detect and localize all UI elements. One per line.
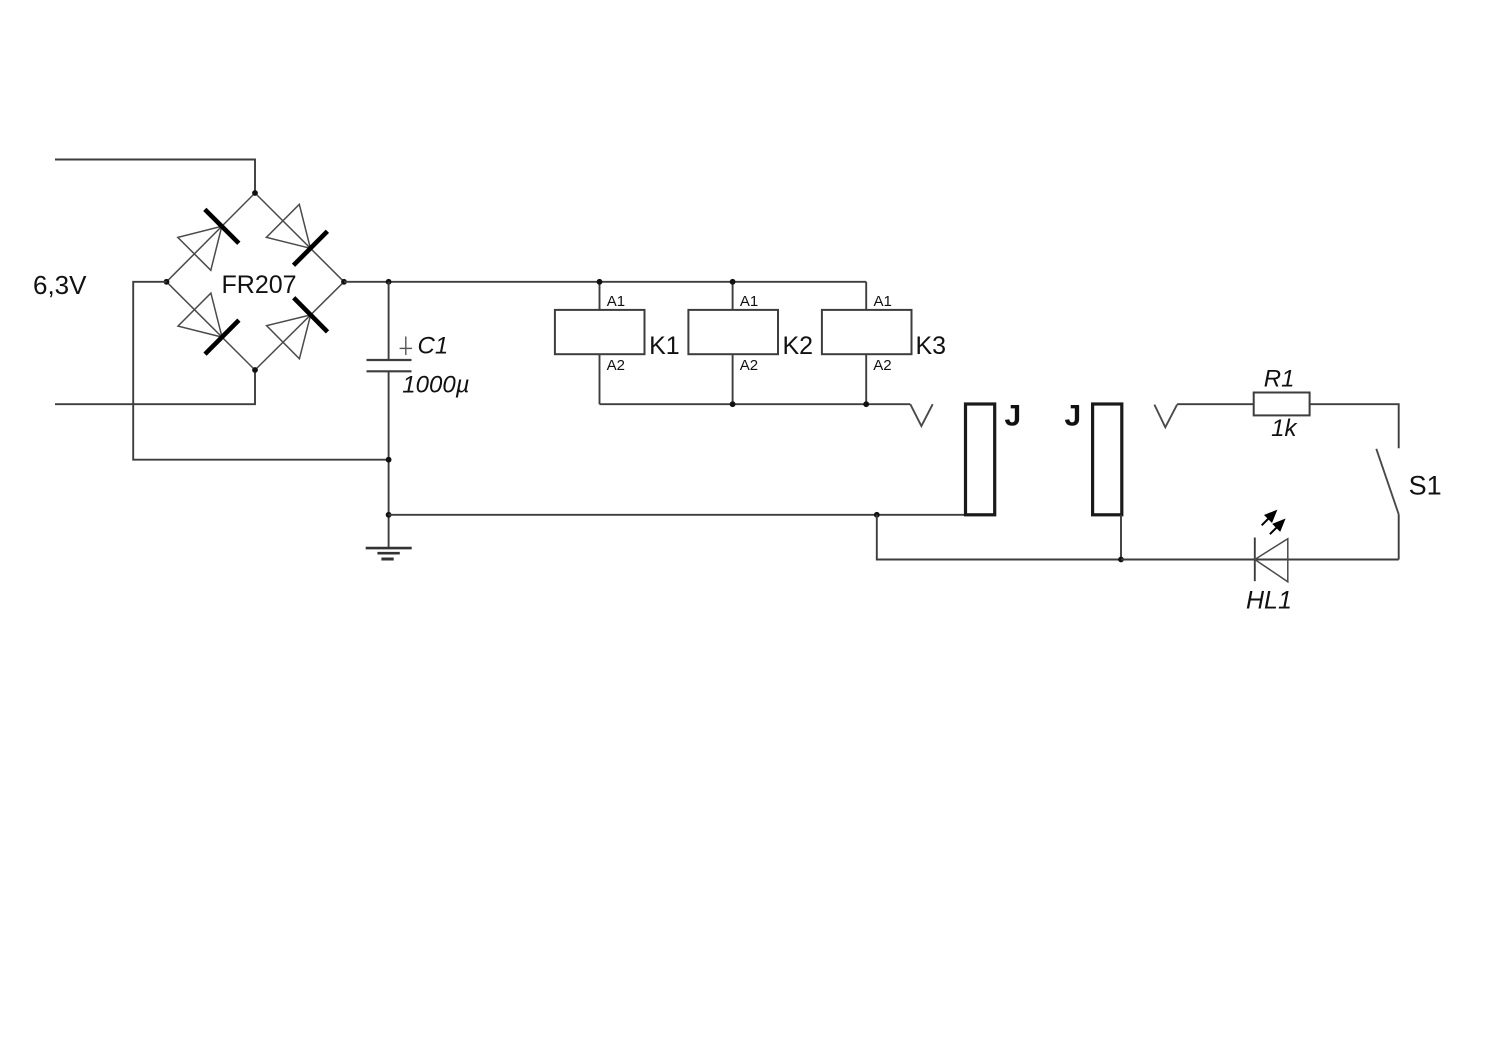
svg-text:A2: A2 (873, 357, 891, 374)
wire: K1 pin A2 lead (599, 354, 601, 404)
node: junction minus rail / C1 lead (386, 457, 392, 463)
svg-text:C1: C1 (418, 332, 449, 359)
svg-text:A1: A1 (874, 293, 892, 310)
diode D2 (top-right arm) of bridge FR207 (266, 204, 327, 265)
node: bridge top AC node (252, 190, 258, 196)
connector plug mark V (start of lamp circuit) (1154, 405, 1177, 428)
capacitor C1 plates (367, 360, 412, 371)
wire: K3 pin A2 lead (865, 354, 867, 404)
svg-text:R1: R1 (1264, 366, 1295, 393)
wire: relay bottom rail (600, 403, 911, 405)
node: branch junction to LED return (874, 512, 880, 518)
switch S1 blade (1376, 449, 1398, 515)
wire: plus rail from right node to relay rail (344, 281, 866, 283)
svg-text:J: J (1065, 400, 1082, 433)
svg-text:S1: S1 (1409, 470, 1442, 500)
wire: minus rail from left node down and right to C1 bottom (133, 282, 388, 460)
diode D4 (bottom-right arm) of bridge FR207 (267, 298, 328, 359)
bridge arm wire T-R (255, 193, 344, 282)
node: bridge left (minus) node (164, 279, 170, 285)
svg-text:FR207: FR207 (222, 271, 297, 299)
connector J2 rectangle (1093, 404, 1122, 515)
svg-text:K2: K2 (783, 332, 814, 360)
LED HL1 triangle (1255, 539, 1288, 582)
wire: J2 bottom lead (1120, 515, 1122, 560)
resistor R1 body (1254, 393, 1310, 416)
svg-text:A2: A2 (607, 357, 625, 374)
svg-text:K1: K1 (649, 332, 680, 360)
connector J1 rectangle (966, 404, 995, 515)
svg-text:K3: K3 (916, 332, 947, 360)
bridge arm wire L-T (167, 193, 256, 282)
wire: AC input bottom from transformer (55, 370, 255, 404)
svg-text:1000µ: 1000µ (402, 372, 469, 399)
node: bridge bottom AC node (252, 367, 258, 373)
wire: bottom distribution wire to J1 (389, 514, 966, 516)
LED light arrow 2 (1270, 519, 1286, 535)
node: K1 top junction on plus rail (597, 279, 603, 285)
svg-text:A2: A2 (740, 357, 758, 374)
svg-text:1k: 1k (1271, 415, 1298, 442)
node: K3 bottom junction (863, 401, 869, 407)
relay coil K1 rectangle (555, 310, 645, 354)
bridge arm wire B-R (255, 282, 344, 370)
svg-text:A1: A1 (607, 293, 625, 310)
node: junction plus rail / C1 top (386, 279, 392, 285)
wire: K2 pin A1 lead (732, 282, 734, 310)
svg-text:6,3V: 6,3V (33, 270, 87, 300)
node: bridge right (plus) node (341, 279, 347, 285)
svg-text:A1: A1 (740, 293, 758, 310)
wire: branch down to LED return wire (877, 515, 1121, 560)
LED light arrow 1 (1262, 510, 1278, 526)
connector plug mark V (end of relay rail) (910, 404, 932, 426)
wire: AC input top from transformer (55, 160, 255, 194)
node: junction J2 lead / LED return wire (1118, 557, 1124, 563)
wire: K3 pin A1 lead (865, 282, 867, 310)
diode D1 (left-top arm) of bridge FR207 (178, 209, 239, 270)
relay coil K2 rectangle (688, 310, 778, 354)
diode D3 (left-bottom arm) of bridge FR207 (178, 293, 239, 354)
wire: C1 top lead (388, 282, 390, 360)
node: junction ground / bottom distribution wire (386, 512, 392, 518)
LED HL1 cathode bar (1254, 538, 1256, 582)
svg-text:J: J (1005, 400, 1022, 433)
wire: LED return wire right section (1121, 559, 1399, 561)
wire: from plug mark to R1 (1177, 403, 1254, 405)
wire: C1 bottom lead to ground (388, 371, 390, 548)
wire: K2 pin A2 lead (732, 354, 734, 404)
svg-text:HL1: HL1 (1246, 586, 1292, 614)
wire: R1 to switch S1 top terminal (1310, 404, 1399, 448)
relay coil K3 rectangle (822, 310, 912, 354)
wire: S1 bottom terminal down to LED wire (1398, 514, 1400, 559)
wire: K1 pin A1 lead (599, 282, 601, 310)
ground symbol (366, 548, 412, 559)
node: K2 top junction on plus rail (730, 279, 736, 285)
node: K2 bottom junction (730, 401, 736, 407)
polarity + sign of C1 (400, 337, 412, 356)
bridge arm wire L-B (167, 282, 256, 370)
